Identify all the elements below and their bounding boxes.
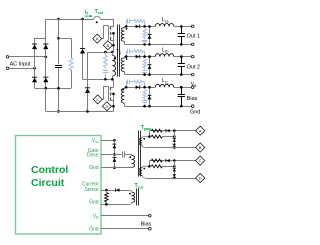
wire row2 to zener C [162, 166, 174, 168]
diode rectifier b [136, 55, 140, 59]
node row1 zener top C [173, 159, 176, 162]
node gate drive clamp [113, 153, 116, 156]
node C gate diamond [196, 156, 205, 165]
node Tgate primary polarity dot [129, 156, 131, 158]
svg-text:Bias: Bias [141, 221, 152, 227]
node snubber right a [143, 25, 146, 28]
terminal bias gnd [149, 227, 152, 230]
wire output top c [124, 87, 155, 89]
wire bottom rail [46, 111, 114, 113]
transistor Q2 lower MOSFET [113, 79, 115, 87]
svg-text:Gnd: Gnd [190, 109, 200, 115]
capacitor snubber freewheel b [142, 70, 147, 72]
svg-text:D: D [199, 176, 202, 181]
diode gate row1 C [166, 159, 169, 162]
terminal output minus c [191, 105, 194, 108]
diode bridge bottom-left [32, 78, 37, 83]
node C lower gate diamond [93, 95, 102, 104]
capacitor gate coupling [122, 151, 124, 157]
terminal output minus b [191, 73, 194, 76]
terminal output plus a [191, 25, 194, 28]
wire output top a [124, 26, 155, 28]
svg-text:Control: Control [31, 164, 68, 176]
node snubber right b [143, 55, 146, 58]
wire row riser A [149, 131, 151, 137]
diode clamp D1 [80, 49, 85, 54]
wire bridge bottom join [35, 88, 71, 90]
wire inductor to terminal c [174, 87, 192, 89]
node Tgate secondary polarity dot CD [143, 168, 145, 170]
node snubber left c [125, 86, 128, 89]
node D source diamond [196, 173, 205, 182]
resistor burden [105, 193, 109, 202]
winding T1 primary [112, 52, 114, 55]
capacitor snubber series diode c [126, 82, 128, 88]
resistor gate row2 C [151, 165, 162, 168]
node Tgate secondary polarity dot AB [143, 138, 145, 140]
node output cap bottom c [180, 105, 183, 108]
node freewheel top b [148, 55, 151, 58]
node snubber freewheel bottom b [143, 73, 146, 76]
node output cap bottom a [180, 43, 183, 46]
node secondary polarity dot a [126, 28, 128, 30]
svg-text:C: C [199, 158, 202, 163]
wire AC top to bridge right column [9, 56, 46, 58]
svg-text:B: B [106, 43, 109, 48]
svg-text:Out 2: Out 2 [187, 64, 200, 70]
inductor L1b [155, 54, 173, 57]
wire gnd pin [101, 167, 132, 169]
diode zener lower A [173, 144, 176, 147]
diode rectifier a [136, 25, 140, 29]
node freewheel bottom a [148, 43, 151, 46]
wire clamp vertical [114, 140, 116, 167]
transformer Tcur core [136, 189, 138, 206]
winding Tgate secondary CD [142, 166, 149, 167]
wire bulk cap line [58, 19, 60, 64]
resistor gate row1 C [151, 159, 162, 162]
svg-text:C: C [96, 97, 99, 102]
op-amp U1 control circuit block [16, 136, 102, 235]
wire gnd2 pin return [101, 204, 130, 206]
capacitor output c [181, 87, 183, 94]
node snubber right c [143, 86, 146, 89]
terminal VB [149, 215, 152, 218]
node freewheel top c [148, 86, 151, 89]
resistor snubber series diode c [134, 80, 143, 83]
wire gate drive pin [101, 154, 122, 156]
resistor snubber series diode b [134, 50, 143, 53]
terminal output plus c [191, 86, 194, 89]
svg-text:Bias: Bias [187, 96, 198, 102]
node row1 zener top A [173, 129, 176, 132]
terminal AC input bottom [6, 67, 9, 70]
winding T1 secondary b [124, 57, 126, 58]
node snubber left b [125, 55, 128, 58]
node B junction [112, 44, 115, 47]
transformer T1 core [117, 25, 119, 77]
resistor gate row2 A [151, 135, 162, 138]
wire output bottom b [124, 74, 191, 76]
node T1 primary polarity dot [114, 57, 116, 59]
node B upper source diamond [103, 41, 112, 50]
wire output top b [124, 56, 155, 58]
node freewheel bottom b [148, 73, 151, 76]
node B source diamond [196, 143, 205, 152]
wire bridge left column [34, 38, 36, 88]
svg-text:D: D [105, 104, 108, 109]
transformer Tgate core [138, 131, 140, 177]
node burden resistor top [105, 189, 108, 192]
wire top rail left segment [46, 19, 94, 21]
node A upper gate diamond [93, 34, 102, 43]
svg-text:Gnd: Gnd [89, 199, 99, 205]
wire gate bottom row D [146, 178, 196, 180]
node primary bottom [111, 78, 114, 81]
node freewheel top a [148, 25, 151, 28]
node snubber freewheel bottom a [143, 43, 146, 46]
wire output bottom a [124, 44, 191, 46]
wire bridge right column [45, 38, 47, 88]
svg-text:AC Input: AC Input [10, 62, 31, 68]
wire gate row1 A [149, 130, 195, 132]
node snubber top [104, 51, 107, 54]
node winding-row2 junction A [148, 135, 151, 138]
wire diamond D link [111, 106, 113, 108]
node Q2 body-source [112, 93, 115, 96]
resistor snubber freewheel b [143, 59, 146, 68]
svg-text:Gnd: Gnd [89, 227, 99, 233]
capacitor bulk [55, 65, 62, 67]
winding Tgate primary [131, 154, 133, 155]
wire drop to bottom rail [45, 88, 47, 111]
wire freewheel diode a [149, 26, 151, 44]
winding Tcur primary hop [94, 16, 101, 19]
resistor bleeder [69, 58, 73, 70]
wire zener stack C [174, 161, 176, 178]
node cap line bottom rail [57, 110, 60, 113]
diode bridge top-right [43, 45, 48, 50]
terminal output plus b [191, 55, 194, 58]
wire AC bottom to bridge left column [9, 68, 35, 70]
node D junction [112, 105, 115, 108]
wire current sense pin [101, 190, 130, 192]
resistor snubber freewheel a [143, 29, 146, 38]
diode clamp D2 [85, 88, 90, 93]
wire freewheel diode b [149, 57, 151, 75]
node A gate diamond [196, 126, 205, 135]
node D lower source diamond [102, 102, 111, 111]
diode bridge bottom-right [43, 78, 48, 83]
wire Ip arrow [84, 15, 90, 17]
node bridge minus drop [45, 87, 48, 90]
node secondary polarity dot b [126, 58, 128, 60]
node output cap bottom b [180, 73, 183, 76]
terminal output minus a [191, 43, 194, 46]
diode current sense [116, 188, 120, 191]
capacitor output a [181, 26, 183, 33]
node snubber freewheel bottom c [143, 105, 146, 108]
svg-text:A: A [96, 36, 99, 41]
diode zener lower C [173, 174, 176, 177]
node primary top [111, 51, 114, 54]
winding T1 secondary a [124, 26, 126, 27]
svg-text:Drive: Drive [87, 153, 99, 159]
node row2 zener C [173, 165, 176, 168]
wire inductor to terminal b [174, 56, 192, 58]
wire bleeder branch bottom [71, 70, 73, 88]
node winding-row2 junction C [148, 165, 151, 168]
node clamp D1 top rail [81, 18, 84, 21]
node zener bottom B [173, 146, 176, 149]
inductor L1c [155, 84, 173, 87]
terminal AC input top [6, 56, 9, 59]
node secondary polarity dot c [122, 89, 124, 91]
diode freewheel b [148, 65, 152, 69]
capacitor snubber series diode a [126, 21, 128, 27]
wire diamond B link [112, 45, 113, 47]
svg-text:Sense: Sense [84, 187, 98, 193]
node AC-right column junction [45, 56, 48, 59]
wire clamp D1 line [82, 19, 84, 79]
wire primary top node line [88, 52, 114, 54]
node zener bottom D [173, 177, 176, 180]
winding T1 secondary c [124, 87, 126, 88]
wire bleeder branch top [59, 38, 72, 40]
resistor gate row1 A [151, 129, 162, 132]
capacitor snubber freewheel a [142, 40, 147, 42]
capacitor output b [181, 57, 183, 64]
node Tcur secondary polarity dot [129, 193, 131, 195]
node output cap top a [180, 25, 183, 28]
winding Tcur secondary [130, 190, 132, 192]
diode gate row1 A [166, 129, 169, 132]
wire clamp D2 line [87, 52, 89, 111]
wire gate bottom row B [146, 147, 196, 149]
diode freewheel c [148, 96, 152, 100]
wire bridge top join [35, 38, 46, 40]
diode rectifier c [136, 85, 140, 89]
resistor snubber primary [105, 52, 107, 56]
node Tcur polarity dot [96, 21, 98, 23]
diode zener upper C [173, 167, 176, 169]
diode freewheel a [148, 35, 152, 39]
node burden resistor bottom [105, 203, 108, 206]
node snubber left a [125, 25, 128, 28]
resistor snubber series diode a [134, 19, 143, 22]
node bulk cap top rail [57, 18, 60, 21]
node AC-left column junction [33, 67, 36, 70]
wire row riser C [149, 161, 151, 167]
node Q1 body-source [112, 32, 115, 35]
wire zener stack A [174, 131, 176, 148]
wire gate row1 C [149, 160, 195, 162]
diode clamp gate lower [113, 158, 117, 162]
node bleeder bottom [57, 87, 60, 90]
node row2 zener A [173, 135, 176, 138]
node Vcc clamp [113, 139, 116, 142]
wire inductor to terminal a [174, 26, 192, 28]
svg-text:Circuit: Circuit [31, 177, 65, 189]
wire VB pin [101, 215, 149, 217]
wire Gnd3 pin [101, 228, 149, 230]
svg-text:A: A [199, 128, 202, 133]
node freewheel bottom c [148, 105, 151, 108]
node output cap top b [180, 55, 183, 58]
diode zener upper A [173, 138, 176, 140]
diode clamp gate upper [113, 145, 117, 149]
wire Vcc pin [101, 140, 115, 142]
capacitor snubber primary [105, 67, 107, 69]
svg-text:Out 1: Out 1 [187, 33, 200, 39]
wire row2 to zener A [162, 136, 174, 138]
inductor L1a [155, 23, 173, 26]
capacitor snubber series diode b [126, 51, 128, 57]
capacitor snubber freewheel c [142, 100, 147, 102]
wire freewheel diode c [149, 87, 151, 106]
wire primary bottom node line [83, 79, 114, 81]
resistor snubber freewheel c [143, 90, 146, 99]
node output cap top c [180, 86, 183, 89]
wire top rail right segment [100, 19, 113, 21]
svg-text:Gnd: Gnd [89, 165, 99, 171]
transistor Q1 upper MOSFET [113, 19, 115, 27]
node snubber bottom [104, 78, 107, 81]
wire output bottom c [124, 106, 191, 108]
wire bridge riser to top rail [45, 19, 47, 38]
svg-text:B: B [199, 145, 202, 150]
node gnd clamp [113, 166, 116, 169]
node clamp D2 bottom rail [86, 110, 89, 113]
diode bridge top-left [32, 45, 37, 50]
node bleeder branch top [57, 37, 60, 40]
winding Tgate secondary AB [142, 137, 149, 138]
wire cap to Tgate primary [125, 154, 132, 156]
